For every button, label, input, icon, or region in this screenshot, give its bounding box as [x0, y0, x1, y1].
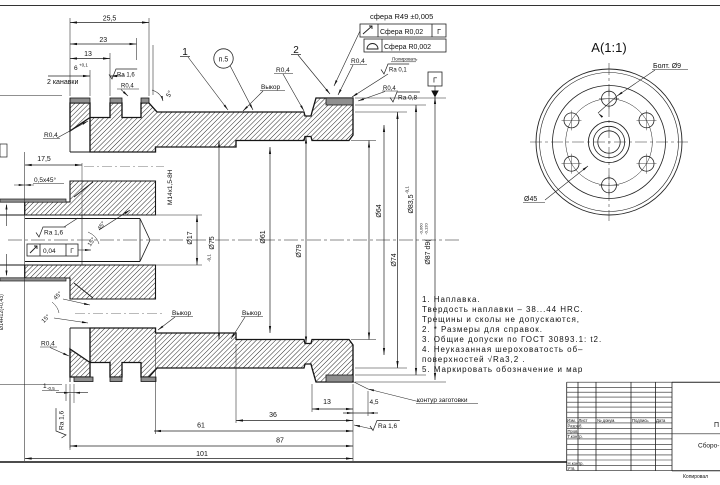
dimension d75-0.1: [209, 141, 220, 340]
svg-text:Твердость наплавки – 38...44 H: Твердость наплавки – 38...44 HRC.: [422, 305, 584, 314]
dimension 17,5 thread depth: [25, 156, 82, 166]
svg-text:61: 61: [197, 423, 205, 430]
dimension d87 d9 with datum: [434, 97, 436, 380]
cropped label box at left edge: [0, 144, 7, 157]
roughness mark: [370, 421, 400, 431]
dimension d83.5-0.1: [408, 105, 417, 375]
svg-text:5. Маркировать обозначение и м: 5. Маркировать обозначение и мар: [422, 365, 583, 374]
svg-text:сфера R49 ±0,005: сфера R49 ±0,005: [370, 12, 433, 21]
extension lines for d17: [140, 214, 202, 216]
svg-text:-0,060: -0,060: [419, 223, 424, 235]
hardfacing layer (grey) on collar bottom: [326, 375, 353, 382]
svg-text:Разраб.: Разраб.: [568, 424, 583, 429]
svg-text:R0,4: R0,4: [276, 67, 290, 74]
svg-text:Ra 1,6: Ra 1,6: [378, 423, 398, 430]
dimension d17: [187, 215, 198, 265]
svg-text:87: 87: [276, 438, 284, 445]
left face extension to page edge: [0, 95, 62, 97]
svg-text:R0,4: R0,4: [44, 132, 58, 139]
thread end line: [81, 215, 83, 265]
roughness mark: [56, 408, 66, 438]
roughness mark: [381, 64, 409, 74]
svg-text:Сфера R0,002: Сфера R0,002: [384, 44, 431, 51]
svg-text:0,04: 0,04: [43, 248, 56, 255]
svg-text:Г: Г: [437, 29, 441, 36]
svg-text:П: П: [714, 422, 719, 429]
svg-text:17,5: 17,5: [37, 156, 51, 163]
svg-text:Трещины и сколы не допускаются: Трещины и сколы не допускаются,: [422, 315, 580, 324]
svg-text:Утв.: Утв.: [568, 466, 576, 471]
left vertical dimension (wall): [6, 205, 8, 226]
dimension 25,5: [70, 16, 149, 24]
drawing frame top border: [0, 5, 720, 7]
dimension 87: [70, 438, 353, 448]
svg-text:2. * Размеры для справок.: 2. * Размеры для справок.: [422, 325, 543, 334]
dimension 4,5: [343, 412, 378, 414]
svg-text:4. Неуказанная шероховатость о: 4. Неуказанная шероховатость об–: [422, 345, 583, 354]
svg-text:Ø87 d9(: Ø87 d9(: [425, 239, 432, 265]
counterbore cone lower: [74, 283, 93, 298]
svg-text:Ra 1,6: Ra 1,6: [44, 230, 64, 237]
svg-text:-0,1: -0,1: [207, 254, 212, 262]
svg-text:Ra 1,6: Ra 1,6: [59, 410, 66, 430]
svg-text:Сборо-: Сборо-: [698, 442, 719, 450]
dimension 13 (groove): [70, 51, 110, 60]
hardfacing layer (grey) on collar top: [326, 98, 353, 105]
svg-text:13: 13: [323, 399, 331, 406]
extension lines right: [355, 97, 446, 99]
bolt hole upper edge line: [70, 151, 90, 153]
dimension d64: [376, 125, 385, 355]
svg-text:2 канавки: 2 канавки: [47, 79, 78, 86]
roughness mark: [36, 227, 66, 237]
feature control frame rows: [360, 24, 446, 37]
svg-text:М14х1,5-8Н: М14х1,5-8Н: [167, 169, 174, 205]
svg-text:-0,120: -0,120: [424, 223, 429, 235]
svg-text:Ra 0,1: Ra 0,1: [389, 68, 407, 74]
dimension line (bore lip): [368, 141, 370, 340]
drill cone at hole bottom: [140, 219, 150, 241]
svg-text:Ø75: Ø75: [209, 236, 216, 249]
svg-text:-0,1: -0,1: [405, 186, 410, 194]
dimension 23: [70, 37, 137, 45]
dimension 61: [154, 423, 353, 433]
svg-text:25,5: 25,5: [103, 16, 117, 23]
svg-text:0,5х45°: 0,5х45°: [34, 176, 57, 184]
extension lines top: [69, 18, 71, 96]
svg-text:Ø61: Ø61: [260, 230, 267, 243]
hardfacing layer (grey) on flange top face: [70, 98, 90, 103]
svg-text:Выкор: Выкор: [242, 310, 262, 317]
svg-text:Полировать: Полировать: [392, 57, 418, 62]
svg-text:Подпись: Подпись: [632, 418, 649, 423]
svg-text:36: 36: [269, 412, 277, 419]
svg-text:п.5: п.5: [219, 57, 229, 64]
main axis centerline: [8, 239, 460, 241]
svg-text:13: 13: [84, 51, 92, 58]
svg-text:Ø79: Ø79: [296, 244, 303, 257]
left end face: [24, 202, 26, 215]
bolt hole axis lower: [75, 313, 164, 315]
dimension 36: [236, 412, 353, 422]
bolt circle: [566, 99, 653, 186]
svg-text:R0,4: R0,4: [351, 58, 365, 65]
dimension d61: [260, 147, 271, 333]
svg-text:Дата: Дата: [656, 418, 666, 423]
roughness mark: [390, 92, 420, 102]
svg-text:А(1:1): А(1:1): [591, 40, 626, 55]
left tube wall lines: [0, 214, 25, 216]
svg-text:1. Наплавка.: 1. Наплавка.: [422, 295, 481, 304]
runout feature control frame: [27, 244, 78, 256]
dimension 101: [25, 451, 353, 460]
six bolt holes: [599, 89, 619, 109]
svg-text:Г: Г: [433, 76, 437, 85]
svg-text:4,5: 4,5: [369, 399, 378, 406]
svg-text:Ø83,5: Ø83,5: [408, 194, 415, 213]
svg-text:Болт. Ø9: Болт. Ø9: [653, 63, 681, 70]
svg-text:Ø74: Ø74: [391, 253, 398, 266]
svg-text:поверхностей √Ra3,2 .: поверхностей √Ra3,2 .: [422, 355, 525, 364]
end view outer circles: [536, 69, 682, 215]
bolt hole axis upper: [84, 166, 164, 168]
svg-text:Ø14Н12(+0,43): Ø14Н12(+0,43): [0, 294, 5, 330]
svg-text:Лист: Лист: [579, 418, 588, 423]
svg-text:Выкор: Выкор: [261, 84, 281, 91]
roughness mark: [109, 69, 137, 79]
svg-text:Г: Г: [70, 248, 74, 255]
svg-text:+0,1: +0,1: [79, 63, 88, 68]
svg-text:Ra 1,6: Ra 1,6: [117, 73, 135, 79]
svg-text:Изм.: Изм.: [567, 418, 576, 423]
svg-text:R0,4: R0,4: [121, 84, 134, 90]
svg-text:Ø17: Ø17: [187, 231, 194, 244]
part cross-section: upper wall (flange, barrel, collar) hatched: [70, 98, 353, 152]
svg-text:101: 101: [196, 451, 208, 458]
svg-text:Т.контр.: Т.контр.: [568, 434, 583, 439]
dimension d79: [296, 137, 307, 344]
svg-text:Ø45: Ø45: [524, 196, 537, 203]
extension lines bottom: [24, 152, 26, 461]
flange left face: [69, 98, 71, 103]
part cross-section: lower mid wall with hub boss: [25, 265, 156, 299]
svg-text:6: 6: [74, 65, 78, 72]
svg-text:R0,4: R0,4: [41, 341, 55, 348]
hardfacing layer (grey) on left tube top: [0, 199, 66, 202]
dimension d74: [391, 112, 399, 368]
svg-text:Копировал: Копировал: [683, 474, 708, 480]
center bore circles: [588, 121, 629, 162]
hardfacing layer (grey) on flange bottom face: [74, 377, 93, 382]
position label n.5 in circle: [214, 49, 233, 68]
threaded hole M14x1.5 lines: [25, 218, 140, 220]
svg-text:3. Общие допуски по ГОСТ 30893: 3. Общие допуски по ГОСТ 30893.1: t2.: [422, 335, 602, 344]
dimension 6+0.1 groove width: [48, 75, 90, 77]
svg-text:Сфера R0,02: Сфера R0,02: [380, 29, 423, 36]
svg-text:Ø64: Ø64: [376, 204, 383, 217]
svg-text:Выкор: Выкор: [172, 310, 192, 317]
counterbore cone upper: [74, 182, 93, 197]
svg-text:Ra 0,8: Ra 0,8: [398, 95, 418, 102]
drawing frame bottom border: [0, 461, 567, 463]
crosshair centerlines: [530, 141, 688, 143]
part cross-section: upper mid wall with hub boss: [25, 181, 156, 215]
datum flag Г: [428, 72, 442, 86]
part cross-section: lower wall (mirror) hatched: [70, 328, 353, 382]
svg-text:№ докум.: № докум.: [597, 418, 615, 423]
title block: [567, 382, 720, 471]
bolt hole lower edge line: [70, 327, 90, 329]
svg-text:23: 23: [99, 37, 107, 44]
hardfacing layer (grey) on left tube bottom: [0, 278, 66, 281]
svg-text:контур заготовки: контур заготовки: [417, 397, 468, 404]
dimension 13 collar: [312, 399, 353, 410]
